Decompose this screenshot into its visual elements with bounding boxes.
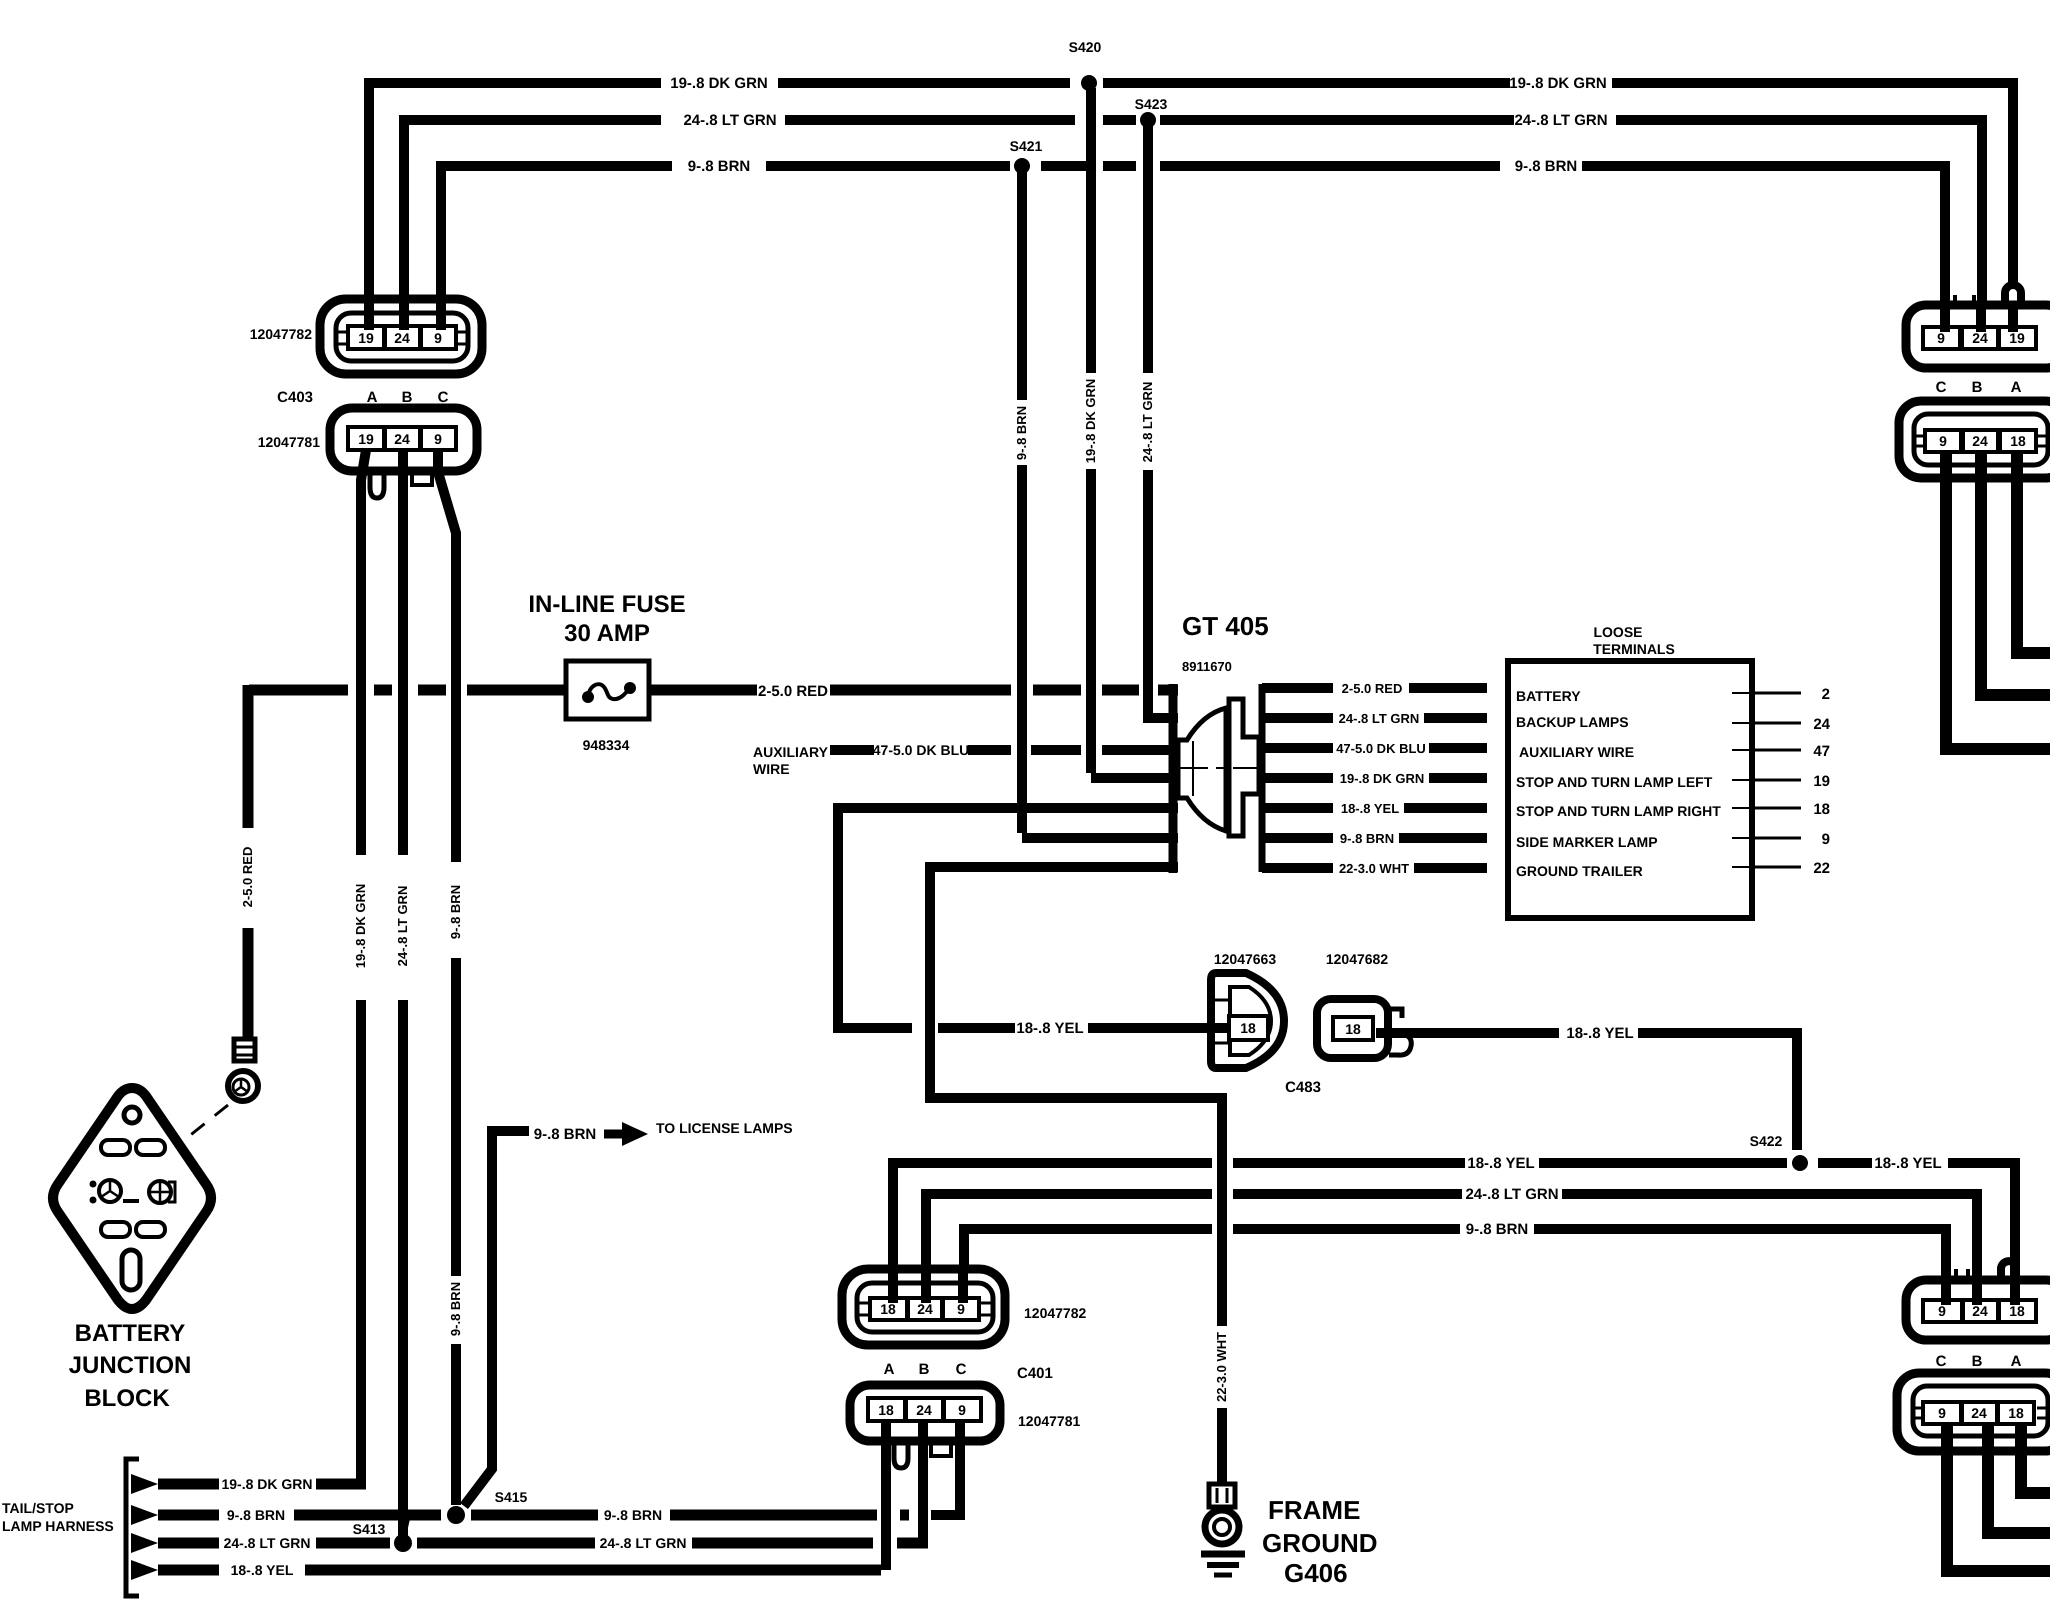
svg-text:47: 47	[1813, 743, 1830, 760]
svg-text:19-.8 DK GRN: 19-.8 DK GRN	[221, 1476, 312, 1492]
wire stub into connector 12047663	[1210, 1023, 1230, 1033]
svg-text:9-.8 BRN: 9-.8 BRN	[1515, 158, 1578, 175]
connector right second 12047781 mate	[1899, 401, 2050, 478]
svg-text:9-.8 BRN: 9-.8 BRN	[604, 1507, 662, 1523]
wire GT405 lead 9-.8 BRN	[1262, 831, 1487, 846]
wire pin A 18 YEL down from C401	[881, 1421, 891, 1570]
svg-text:2: 2	[1822, 686, 1830, 703]
wire stubs into right top connector	[1945, 306, 2013, 332]
svg-text:24: 24	[394, 330, 410, 346]
svg-text:19: 19	[2009, 330, 2025, 346]
svg-text:S420: S420	[1069, 39, 1102, 55]
wire 9 BRN vertical from S421 to GT405	[1014, 171, 1178, 838]
connector right bottom 12047782 mate	[1906, 1269, 2050, 1340]
svg-text:BLOCK: BLOCK	[84, 1385, 170, 1412]
wire harness 18-.8 YEL	[158, 1562, 881, 1578]
splice S413	[353, 1519, 412, 1552]
svg-text:24: 24	[917, 1301, 933, 1317]
harness arrow 19 DK GRN	[131, 1474, 158, 1494]
svg-text:C483: C483	[1285, 1079, 1321, 1096]
svg-text:24: 24	[1972, 1303, 1988, 1319]
svg-text:C: C	[1936, 379, 1947, 396]
svg-text:LAMP HARNESS: LAMP HARNESS	[2, 1518, 114, 1534]
svg-text:18: 18	[2010, 433, 2026, 449]
svg-text:18: 18	[1345, 1021, 1361, 1037]
wire pin C 9 BRN down from 12047781 to S415	[438, 450, 463, 1505]
svg-text:18: 18	[2009, 1303, 2025, 1319]
svg-text:24-.8 LT GRN: 24-.8 LT GRN	[600, 1535, 687, 1551]
svg-text:9: 9	[1938, 1303, 1946, 1319]
svg-text:47-5.0 DK BLU: 47-5.0 DK BLU	[1336, 741, 1426, 756]
svg-text:18-.8 YEL: 18-.8 YEL	[1341, 801, 1399, 816]
svg-text:24-.8 LT GRN: 24-.8 LT GRN	[1514, 112, 1607, 129]
wire pin A 19 DK GRN down from 12047781	[353, 450, 368, 1489]
svg-text:9-.8 BRN: 9-.8 BRN	[1014, 406, 1029, 460]
svg-text:24-.8 LT GRN: 24-.8 LT GRN	[683, 112, 776, 129]
connector 12047782 (C401 upper half)	[842, 1269, 1087, 1345]
label auxiliary wire	[753, 744, 829, 777]
svg-text:FRAME: FRAME	[1268, 1495, 1360, 1525]
svg-text:S415: S415	[495, 1489, 528, 1505]
svg-text:B: B	[1972, 379, 1983, 396]
dashed leader line to battery junction block	[128, 1105, 228, 1185]
node right top pin labels C B A	[1936, 379, 2022, 396]
svg-text:24-.8 LT GRN: 24-.8 LT GRN	[1140, 382, 1155, 463]
svg-text:9: 9	[1938, 1405, 1946, 1421]
svg-text:19-.8 DK GRN: 19-.8 DK GRN	[353, 884, 368, 969]
connector 12047663 (C483 left)	[1211, 951, 1284, 1068]
wire right bottom 9 BRN exit	[1941, 1424, 2050, 1571]
svg-text:22: 22	[1813, 860, 1830, 877]
wire 18-.8 YEL lower row	[888, 1155, 2020, 1302]
wire stubs into C401 upper connector	[893, 1272, 963, 1303]
wire pin B 24 LT GRN down from 12047781 to S413	[395, 450, 410, 1540]
svg-text:IN-LINE FUSE: IN-LINE FUSE	[528, 591, 685, 618]
wire right 18 YEL exit	[2011, 452, 2050, 653]
splice S420	[1069, 39, 1102, 91]
svg-text:BACKUP LAMPS: BACKUP LAMPS	[1516, 714, 1629, 730]
connector 12047781 (C401 lower half)	[850, 1385, 1081, 1441]
wire right bottom 18 YEL exit	[2015, 1424, 2050, 1493]
wire 47-5.0 DK BLU auxiliary	[830, 742, 1178, 758]
wire GT405 lead 18-.8 YEL	[1262, 801, 1487, 816]
svg-text:9: 9	[1937, 330, 1945, 346]
svg-text:2-5.0 RED: 2-5.0 RED	[758, 683, 828, 700]
svg-text:TERMINALS: TERMINALS	[1593, 641, 1675, 657]
connector 12047781 (C403 lower half)	[258, 408, 477, 471]
svg-text:12047781: 12047781	[258, 434, 321, 450]
svg-text:19: 19	[358, 330, 374, 346]
svg-text:9-.8 BRN: 9-.8 BRN	[448, 885, 463, 939]
svg-text:18: 18	[1240, 1020, 1256, 1036]
svg-text:9-.8 BRN: 9-.8 BRN	[1466, 1221, 1529, 1238]
svg-text:9: 9	[434, 431, 442, 447]
svg-text:JUNCTION: JUNCTION	[69, 1352, 192, 1379]
splice S415	[447, 1489, 528, 1524]
wire GT405 lead 24-.8 LT GRN	[1262, 711, 1487, 726]
arrow to license lamps	[622, 1122, 648, 1146]
svg-text:19-.8 DK GRN: 19-.8 DK GRN	[670, 75, 768, 92]
svg-text:A: A	[367, 389, 378, 406]
svg-text:WIRE: WIRE	[753, 761, 790, 777]
svg-text:12047682: 12047682	[1326, 951, 1389, 967]
svg-text:A: A	[884, 1361, 895, 1378]
svg-text:2-5.0 RED: 2-5.0 RED	[1342, 681, 1403, 696]
svg-text:24-.8 LT GRN: 24-.8 LT GRN	[1339, 711, 1420, 726]
svg-text:C: C	[956, 1361, 967, 1378]
svg-text:18-.8 YEL: 18-.8 YEL	[1467, 1155, 1534, 1172]
svg-text:12047781: 12047781	[1018, 1413, 1081, 1429]
svg-text:9-.8 BRN: 9-.8 BRN	[534, 1126, 597, 1143]
svg-text:SIDE MARKER LAMP: SIDE MARKER LAMP	[1516, 834, 1658, 850]
connector 12047782 (C403 upper half)	[250, 299, 482, 374]
wire 22-3.0 WHT ground lead	[925, 862, 1229, 1486]
splice S422	[1750, 1133, 1808, 1171]
keying tab below C401	[931, 1441, 951, 1456]
svg-text:24: 24	[1972, 433, 1988, 449]
svg-text:9: 9	[958, 1402, 966, 1418]
svg-text:9-.8 BRN: 9-.8 BRN	[688, 158, 751, 175]
cavity plug loop below C401	[894, 1441, 908, 1468]
wire stubs into connector C403 upper	[369, 302, 441, 330]
svg-text:C: C	[1936, 1353, 1947, 1370]
svg-text:BATTERY: BATTERY	[75, 1320, 186, 1347]
svg-text:19-.8 DK GRN: 19-.8 DK GRN	[1083, 379, 1098, 464]
harness arrow 24 LT GRN	[131, 1533, 158, 1553]
svg-text:2-5.0 RED: 2-5.0 RED	[240, 847, 255, 908]
cavity plug loop below 12047781	[370, 468, 384, 498]
svg-text:TO LICENSE LAMPS: TO LICENSE LAMPS	[656, 1120, 793, 1136]
svg-text:18-.8 YEL: 18-.8 YEL	[231, 1562, 294, 1578]
svg-text:30 AMP: 30 AMP	[564, 620, 650, 647]
svg-text:19: 19	[1813, 773, 1830, 790]
svg-text:GT 405: GT 405	[1182, 611, 1269, 641]
svg-text:47-5.0 DK BLU: 47-5.0 DK BLU	[873, 742, 969, 758]
wire 18 YEL branch from GT405 to C483	[833, 803, 1214, 1037]
fuse F1 in-line fuse 30 amp	[528, 591, 685, 753]
svg-text:24: 24	[1972, 330, 1988, 346]
svg-text:C403: C403	[277, 389, 313, 406]
harness arrow 18 YEL	[131, 1560, 158, 1580]
svg-text:9: 9	[1822, 831, 1830, 848]
wire 19-.8 DK GRN top horizontal	[364, 75, 2021, 330]
wire 24-.8 LT GRN lower row	[921, 1186, 1982, 1302]
svg-text:19-.8 DK GRN: 19-.8 DK GRN	[1509, 75, 1607, 92]
wire harness 24-.8 LT GRN	[158, 1535, 928, 1551]
svg-text:STOP AND TURN LAMP LEFT: STOP AND TURN LAMP LEFT	[1516, 774, 1713, 790]
svg-text:GROUND TRAILER: GROUND TRAILER	[1516, 863, 1643, 879]
svg-text:948334: 948334	[583, 737, 630, 753]
connector right top 12047782 mate	[1906, 295, 2050, 368]
svg-text:9: 9	[434, 330, 442, 346]
component GT 405 trailer connector	[1173, 611, 1269, 873]
svg-text:19-.8 DK GRN: 19-.8 DK GRN	[1340, 771, 1425, 786]
wire GT405 lead 2-5.0 RED	[1262, 681, 1487, 696]
svg-text:B: B	[919, 1361, 930, 1378]
battery terminal ring connector	[228, 1039, 258, 1101]
svg-text:9: 9	[1939, 433, 1947, 449]
wire 24 LT GRN vertical from S423 to GT405	[1140, 125, 1178, 718]
wire stubs into right bottom connector	[1946, 1283, 2015, 1305]
wire 2-5.0 RED vertical to battery junction	[240, 685, 255, 1040]
keying tab below 12047781	[412, 470, 432, 485]
svg-text:24: 24	[1813, 716, 1830, 733]
battery junction block body	[53, 1088, 211, 1412]
wire harness 19-.8 DK GRN	[158, 1476, 366, 1492]
wire GT405 lead 19-.8 DK GRN	[1262, 771, 1487, 786]
svg-text:B: B	[402, 389, 413, 406]
svg-text:S413: S413	[353, 1521, 386, 1537]
wire GT405 lead 22-3.0 WHT	[1262, 861, 1487, 876]
wire 19 DK GRN vertical from S420 to GT405	[1083, 88, 1178, 778]
svg-text:18: 18	[878, 1402, 894, 1418]
svg-text:S422: S422	[1750, 1133, 1783, 1149]
svg-text:18-.8 YEL: 18-.8 YEL	[1016, 1020, 1083, 1037]
tail/stop lamp harness bracket	[2, 1459, 139, 1596]
harness arrow 9 BRN	[131, 1505, 158, 1525]
svg-text:24: 24	[394, 431, 410, 447]
wire 24-.8 LT GRN top horizontal	[400, 112, 1987, 330]
svg-text:12047663: 12047663	[1214, 951, 1277, 967]
wire pin B 24 LT GRN down from C401	[918, 1421, 928, 1543]
wire right 9 BRN exit	[1940, 452, 2050, 749]
wire harness 9-.8 BRN	[158, 1507, 909, 1523]
svg-text:A: A	[2011, 1353, 2022, 1370]
ground symbol G406	[1201, 1554, 1245, 1575]
ground G406 ring terminal	[1205, 1484, 1239, 1544]
connector 12047662 (C483 right)	[1317, 951, 1411, 1058]
svg-text:C: C	[438, 389, 449, 406]
svg-text:18-.8 YEL: 18-.8 YEL	[1566, 1025, 1633, 1042]
svg-text:24-.8 LT GRN: 24-.8 LT GRN	[1465, 1186, 1558, 1203]
wire GT405 lead 47-5.0 DK BLU	[1262, 741, 1487, 756]
svg-text:24-.8 LT GRN: 24-.8 LT GRN	[395, 886, 410, 967]
svg-text:S421: S421	[1010, 138, 1043, 154]
wire right bottom 24 LT GRN exit	[1982, 1424, 2050, 1533]
svg-text:18: 18	[1813, 801, 1830, 818]
svg-text:TAIL/STOP: TAIL/STOP	[2, 1500, 74, 1516]
loose terminals table	[1508, 624, 1831, 918]
splice S423	[1135, 96, 1168, 128]
svg-text:9-.8 BRN: 9-.8 BRN	[1340, 831, 1394, 846]
wire 18 YEL from C483 to S422	[1376, 1025, 1797, 1150]
svg-text:G406: G406	[1284, 1558, 1348, 1588]
wire 9-.8 BRN lower row	[959, 1221, 1951, 1302]
svg-text:C401: C401	[1017, 1365, 1053, 1382]
label FRAME GROUND G406	[1262, 1495, 1378, 1588]
wire right 24 LT GRN exit	[1975, 452, 2050, 695]
svg-text:LOOSE: LOOSE	[1593, 624, 1642, 640]
svg-text:24-.8 LT GRN: 24-.8 LT GRN	[224, 1535, 311, 1551]
svg-text:9-.8 BRN: 9-.8 BRN	[227, 1507, 285, 1523]
svg-text:22-3.0 WHT: 22-3.0 WHT	[1214, 1332, 1229, 1402]
connector right bottom 12047781 mate	[1897, 1373, 2050, 1451]
node C401 pin labels A B C	[884, 1361, 1053, 1382]
svg-text:12047782: 12047782	[1024, 1305, 1087, 1321]
svg-text:BATTERY: BATTERY	[1516, 688, 1581, 704]
node right bottom pin labels C B A	[1936, 1353, 2022, 1370]
svg-text:GROUND: GROUND	[1262, 1528, 1378, 1558]
svg-text:AUXILIARY WIRE: AUXILIARY WIRE	[1519, 744, 1634, 760]
wire 9-.8 BRN top horizontal	[437, 158, 1950, 330]
splice S421	[1010, 138, 1043, 174]
svg-text:12047782: 12047782	[250, 326, 313, 342]
svg-text:B: B	[1972, 1353, 1983, 1370]
svg-text:STOP AND TURN LAMP RIGHT: STOP AND TURN LAMP RIGHT	[1516, 803, 1721, 819]
svg-text:24: 24	[916, 1402, 932, 1418]
svg-text:9-.8 BRN: 9-.8 BRN	[448, 1282, 463, 1336]
svg-text:8911670: 8911670	[1182, 659, 1232, 674]
svg-text:S423: S423	[1135, 96, 1168, 112]
svg-text:24: 24	[1971, 1405, 1987, 1421]
svg-text:9: 9	[957, 1301, 965, 1317]
svg-text:18: 18	[2008, 1405, 2024, 1421]
svg-text:18-.8 YEL: 18-.8 YEL	[1874, 1155, 1941, 1172]
svg-text:18: 18	[880, 1301, 896, 1317]
wire 9 BRN license lamp branch	[464, 1126, 625, 1506]
svg-text:22-3.0 WHT: 22-3.0 WHT	[1339, 861, 1409, 876]
wire pin C 9 BRN down from C401	[931, 1421, 965, 1520]
svg-text:A: A	[2011, 379, 2022, 396]
svg-text:19: 19	[358, 431, 374, 447]
svg-text:AUXILIARY: AUXILIARY	[753, 744, 829, 760]
node C403 pin labels A B C	[277, 389, 448, 406]
wire 2-5.0 RED fuse feed horizontal	[249, 683, 1178, 700]
